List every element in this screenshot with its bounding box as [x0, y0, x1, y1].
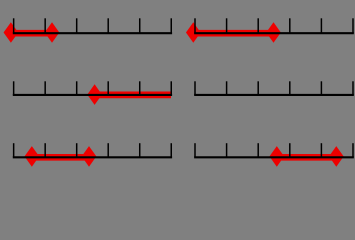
- red interval segment, number line 1 (top-left): [11, 30, 52, 37]
- number line 3 (middle-left) ticks: [14, 81, 172, 95]
- number line 1 (top-left) ticks: [14, 18, 172, 33]
- number line 1 (top-left) axis: [13, 32, 172, 34]
- red interval segment, number line 6 (bottom-right): [277, 154, 337, 161]
- number line 6 (bottom-right) ticks: [195, 143, 353, 157]
- number line 5 (bottom-left) ticks: [14, 143, 172, 157]
- number line 2 (top-right) ticks: [195, 18, 353, 33]
- diamond endpoint right, line 1: [45, 22, 60, 43]
- number line 4 (middle-right) axis: [194, 94, 354, 96]
- number line 2 (top-right) axis: [194, 32, 354, 34]
- diamond endpoint right, line 2: [266, 22, 281, 43]
- red ray segment, number line 3 (middle-left): [95, 92, 171, 99]
- number line 6 (bottom-right) axis: [194, 156, 354, 158]
- diamond endpoint left, line 2: [186, 22, 201, 43]
- diamond endpoint left, line 1: [4, 22, 19, 43]
- red interval segment, number line 2 (top-right): [193, 30, 273, 37]
- red interval segment, number line 5 (bottom-left): [32, 154, 89, 161]
- number line 3 (middle-left) axis: [13, 94, 172, 96]
- number line 4 (middle-right) ticks: [195, 81, 353, 95]
- number line 5 (bottom-left) axis: [13, 156, 172, 158]
- diamond endpoint left, line 6: [269, 146, 284, 167]
- diamond endpoint right, line 5: [82, 146, 97, 167]
- diamond endpoint right, line 6: [329, 146, 344, 167]
- diamond endpoint, line 3: [87, 84, 102, 105]
- diamond endpoint left, line 5: [25, 146, 40, 167]
